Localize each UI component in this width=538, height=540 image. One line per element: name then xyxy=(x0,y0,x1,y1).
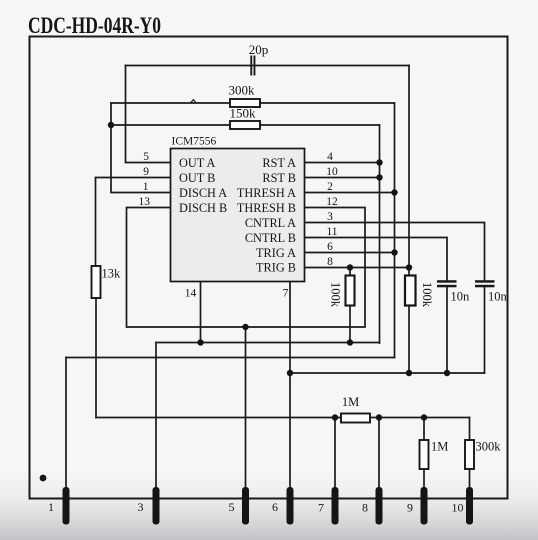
junction rowD-pin7 xyxy=(287,370,293,376)
wire pin1 DISCH A to 300k xyxy=(111,103,171,193)
junction pin4 xyxy=(376,159,382,165)
resistor R2 150k xyxy=(230,106,261,130)
svg-text:TRIG A: TRIG A xyxy=(256,246,296,260)
junction rowD-10nleft xyxy=(444,370,450,376)
junction rowE-terminal9 xyxy=(421,414,427,420)
terminal 7 xyxy=(332,487,339,525)
wire terminal1 drop xyxy=(65,358,67,490)
svg-text:CDC-HD-04R-Y0: CDC-HD-04R-Y0 xyxy=(28,13,161,38)
wire pin6 TRIG A xyxy=(305,252,395,254)
svg-text:2: 2 xyxy=(327,181,333,193)
wire 20p right vertical xyxy=(408,66,410,276)
svg-text:3: 3 xyxy=(327,211,333,223)
junction pin1-150k xyxy=(108,122,114,128)
junction rowE-terminal8 xyxy=(376,414,382,420)
svg-text:OUT B: OUT B xyxy=(179,171,215,185)
wire 300k right vertical xyxy=(394,103,396,358)
svg-text:10n: 10n xyxy=(451,289,471,303)
svg-text:4: 4 xyxy=(327,151,333,163)
junction rowB-pin14 xyxy=(197,339,203,345)
wire 100k left top xyxy=(349,268,351,276)
svg-text:6: 6 xyxy=(272,500,278,514)
wire terminal3 drop xyxy=(155,343,157,490)
junction pin2 xyxy=(391,189,397,195)
svg-text:14: 14 xyxy=(185,288,197,300)
wire row A DISCH B to THRESH B xyxy=(127,208,366,328)
junction pin8-20p xyxy=(406,264,412,270)
terminal 10 xyxy=(466,487,473,525)
wire 20p top xyxy=(126,65,410,67)
wire 10n right bottom xyxy=(484,287,486,373)
svg-text:1M: 1M xyxy=(431,440,448,454)
svg-text:100k: 100k xyxy=(420,282,434,308)
wire 150k right vertical xyxy=(379,125,381,343)
terminal 3 xyxy=(153,487,160,525)
wire terminal9 drop upper xyxy=(423,418,425,441)
wire row C xyxy=(66,357,395,359)
svg-text:5: 5 xyxy=(229,500,235,514)
wire pin11 CNTRL B to 10n left xyxy=(305,238,448,281)
junction pin6 xyxy=(391,249,397,255)
wire pin4 RST A xyxy=(305,162,380,164)
wire 10n left bottom xyxy=(446,287,448,373)
svg-text:ICM7556: ICM7556 xyxy=(172,136,217,148)
wire pin9 OUT B to 13k xyxy=(96,178,171,267)
junction pin8-100k xyxy=(347,264,353,270)
svg-text:1: 1 xyxy=(143,181,149,193)
wire 13k to row E xyxy=(95,298,97,418)
svg-text:8: 8 xyxy=(362,501,368,515)
stray dot xyxy=(40,475,47,482)
terminal 6 xyxy=(287,487,294,525)
wire 150k row xyxy=(111,124,380,126)
terminal 1 xyxy=(63,487,70,525)
svg-text:THRESH A: THRESH A xyxy=(237,186,296,200)
terminal 8 xyxy=(376,487,383,525)
svg-text:6: 6 xyxy=(327,241,333,253)
terminal 5 xyxy=(242,487,249,525)
wire 300k row xyxy=(111,102,395,104)
wire row D xyxy=(290,372,485,374)
svg-text:7: 7 xyxy=(283,288,289,300)
svg-text:20p: 20p xyxy=(249,42,269,57)
svg-text:100k: 100k xyxy=(329,282,343,308)
svg-text:13: 13 xyxy=(139,196,151,208)
resistor R6 1M horizontal xyxy=(341,395,370,423)
wire 100k left bottom xyxy=(349,306,351,343)
svg-text:RST A: RST A xyxy=(262,156,296,170)
svg-text:RST B: RST B xyxy=(262,171,296,185)
wire pin3 CNTRL A to 10n right xyxy=(305,223,485,281)
svg-text:DISCH B: DISCH B xyxy=(179,201,227,215)
resistor R5 100k right xyxy=(405,276,434,308)
resistor R4 100k left xyxy=(329,276,355,308)
capacitor C3 10n right xyxy=(475,280,508,303)
wire pin8 TRIG B xyxy=(305,267,410,269)
svg-text:OUT A: OUT A xyxy=(179,156,215,170)
svg-text:300k: 300k xyxy=(476,440,502,454)
svg-text:CNTRL A: CNTRL A xyxy=(245,216,296,230)
svg-text:10: 10 xyxy=(452,501,464,515)
resistor R7 1M vertical xyxy=(420,440,449,470)
svg-text:8: 8 xyxy=(327,256,333,268)
junction rowD-100kright xyxy=(406,370,412,376)
junction rowB-100k xyxy=(347,339,353,345)
svg-text:13k: 13k xyxy=(102,267,122,281)
wire terminal9 drop lower xyxy=(423,469,425,489)
svg-text:THRESH B: THRESH B xyxy=(237,201,296,215)
wire row B xyxy=(156,342,380,344)
wire terminal5 drop xyxy=(245,327,247,489)
capacitor C1 20p xyxy=(249,42,269,76)
resistor R8 300k vertical xyxy=(465,440,501,470)
border frame xyxy=(30,37,508,499)
svg-text:7: 7 xyxy=(318,501,324,515)
junction pin10 xyxy=(376,174,382,180)
svg-text:1: 1 xyxy=(48,500,54,514)
resistor R1 300k xyxy=(229,83,261,108)
capacitor C2 10n left xyxy=(437,280,470,303)
svg-text:300k: 300k xyxy=(229,83,256,98)
wire pin10 RST B xyxy=(305,177,380,179)
svg-text:DISCH A: DISCH A xyxy=(179,186,227,200)
svg-text:150k: 150k xyxy=(230,106,257,121)
svg-text:11: 11 xyxy=(326,226,337,238)
wire pin2 THRESH A xyxy=(305,192,395,194)
svg-text:1M: 1M xyxy=(342,395,359,409)
svg-text:TRIG B: TRIG B xyxy=(256,261,296,275)
svg-text:10: 10 xyxy=(326,166,338,178)
tick on 300k wire xyxy=(191,100,197,103)
wire terminal10 drop lower xyxy=(469,469,471,489)
svg-text:3: 3 xyxy=(138,500,144,514)
wire pin5 OUT A to 20p left xyxy=(126,66,171,163)
wire terminal10 drop upper xyxy=(469,418,471,441)
svg-text:9: 9 xyxy=(143,166,149,178)
wire terminal7 drop xyxy=(334,418,336,490)
svg-text:12: 12 xyxy=(326,196,338,208)
op-amp ICM7556 box xyxy=(171,149,305,282)
svg-text:5: 5 xyxy=(143,151,149,163)
wire pin7 to terminal6 xyxy=(289,282,291,490)
svg-text:9: 9 xyxy=(407,501,413,515)
svg-text:10n: 10n xyxy=(488,289,508,303)
resistor R3 13k xyxy=(92,266,122,298)
junction rowA-terminal5 xyxy=(242,324,248,330)
wire pin14 drop xyxy=(200,282,202,343)
junction rowE-terminal7 xyxy=(332,414,338,420)
wire row E xyxy=(96,417,470,419)
terminal 9 xyxy=(421,487,428,525)
svg-text:CNTRL B: CNTRL B xyxy=(245,231,296,245)
wire terminal8 drop xyxy=(378,418,380,490)
wire below 100k right xyxy=(408,306,410,374)
